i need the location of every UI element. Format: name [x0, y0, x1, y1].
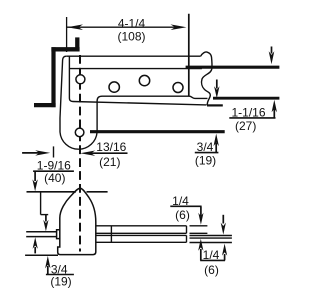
svg-text:(19): (19) — [50, 275, 71, 289]
svg-text:(6): (6) — [204, 263, 219, 277]
svg-text:(108): (108) — [117, 29, 145, 43]
svg-text:(27): (27) — [235, 119, 256, 133]
svg-text:(40): (40) — [44, 171, 65, 185]
svg-text:3/4: 3/4 — [197, 140, 214, 154]
svg-text:(21): (21) — [99, 155, 120, 169]
svg-text:1/4: 1/4 — [203, 248, 220, 262]
svg-text:(6): (6) — [175, 208, 190, 222]
svg-text:(19): (19) — [195, 154, 216, 168]
svg-text:13/16: 13/16 — [96, 140, 126, 154]
svg-text:1-1/16: 1-1/16 — [231, 105, 265, 119]
svg-text:1/4: 1/4 — [172, 194, 189, 208]
